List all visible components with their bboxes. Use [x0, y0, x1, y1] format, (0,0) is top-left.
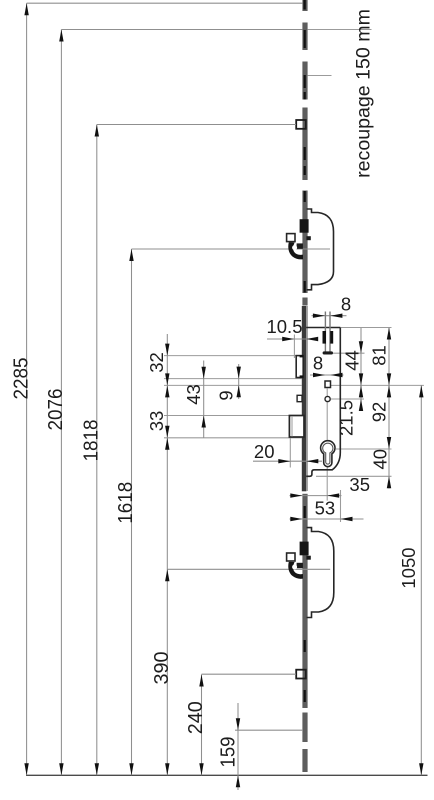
connector 1618 to upper keeper pivot — [132, 248, 331, 250]
arrow 159 bottom (outside below) — [236, 775, 240, 787]
arrow 240 top — [199, 675, 203, 687]
rail bar segment 5 — [302, 191, 307, 294]
arrows bowtie x167.3 y385.4 — [165, 373, 169, 397]
upper keeper nib on rail — [306, 236, 310, 240]
latch pin black flank right — [330, 331, 333, 344]
dim line 10.5 — [267, 338, 317, 340]
baseline arrow x131.5 — [129, 763, 133, 775]
baseline arrow x61.4 — [59, 763, 63, 775]
latch pin slot lines — [325, 312, 330, 352]
arrows dim 20 — [278, 459, 318, 463]
arrows bowtie x389 y385.4 — [387, 373, 391, 397]
baseline arrow x96.8 — [95, 763, 99, 775]
latch bolt — [296, 355, 303, 378]
ext line cylinder axis y449 — [336, 448, 392, 450]
svg-text:159: 159 — [218, 737, 240, 768]
vertical dim line 2076 x61.4 — [60, 30, 62, 776]
ext line small circle y399 — [331, 398, 364, 400]
fixing hole H2 on rail — [296, 670, 306, 679]
recoupage witness top (right of rail) — [308, 29, 372, 31]
svg-text:53: 53 — [315, 498, 336, 519]
upper hook pivot shade — [297, 243, 303, 248]
upper hook inner white notch — [292, 245, 297, 250]
svg-text:1050: 1050 — [398, 547, 419, 588]
rail bar segment 1 (top) — [302, 0, 307, 11]
arrows dim 10.5 — [282, 337, 318, 341]
upper hook head — [287, 234, 295, 242]
vertical dim line 81/92/40 x389 — [388, 328, 390, 489]
rail bar segment 6 (short above lock case) — [302, 298, 307, 306]
svg-text:20: 20 — [254, 441, 275, 462]
svg-text:recoupage 150 mm: recoupage 150 mm — [352, 9, 374, 178]
dim line 53 — [290, 518, 364, 520]
baseline datum line — [26, 774, 428, 776]
arrows dim 35 — [290, 493, 339, 497]
arrow 40 bottom — [387, 476, 391, 488]
ext line case right edge x340.5 below case — [340, 490, 342, 522]
arrow 92 bottom — [387, 437, 391, 449]
lock case top ext to right — [340, 327, 391, 329]
arrows bowtie x361 y385.4 — [359, 373, 363, 397]
vertical dim line 1050 x421.3 — [420, 385, 422, 775]
ext line latch bottom y378.6 — [164, 378, 302, 380]
baseline arrow x201.5 — [199, 763, 203, 775]
vertical dim line 1618 x131.5 — [131, 249, 133, 775]
handle follower square hole — [325, 381, 331, 388]
svg-text:10.5: 10.5 — [266, 316, 302, 337]
arrow 81 top — [387, 328, 391, 340]
vertical dim line 43 x203.7 — [203, 361, 205, 439]
vertical dim line 44/21.5 x361 — [360, 328, 362, 412]
svg-text:1818: 1818 — [80, 420, 102, 462]
lower hook claw — [288, 562, 303, 579]
svg-text:40: 40 — [370, 449, 391, 470]
deadbolt — [289, 416, 304, 438]
latch pin slot dark base — [323, 351, 333, 354]
rail bar segment 7 (below lock case, through lower keeper) — [302, 494, 307, 708]
svg-text:8: 8 — [341, 293, 351, 314]
arrow 159 top (outside above) — [236, 718, 240, 730]
arrow 44 top (outside above y353.2) — [359, 341, 363, 353]
arrows dim 8 bottom — [313, 373, 343, 377]
upper keeper body — [307, 209, 334, 290]
lock case right edge and bottom profile — [306, 328, 340, 477]
baseline arrow x167.3 — [165, 763, 169, 775]
arrow 32 top (outside above y355.6) — [165, 344, 169, 356]
lower hook head — [287, 553, 295, 561]
svg-text:2076: 2076 — [45, 389, 67, 431]
svg-text:2285: 2285 — [10, 358, 32, 400]
svg-text:32: 32 — [146, 352, 167, 373]
faceplate square hole — [297, 395, 302, 401]
arrow 2076 top — [59, 30, 63, 42]
latch pin black flank left — [323, 331, 327, 344]
lock case top edge — [306, 327, 340, 329]
ext line latch top y355.6 — [164, 355, 297, 357]
ext line pin slot bottom y353 — [332, 352, 365, 354]
svg-text:9: 9 — [216, 390, 237, 400]
ext line latch tip x294.4 — [293, 335, 295, 359]
small hole below follower — [325, 396, 330, 401]
arrow 2285 top — [24, 3, 28, 15]
svg-text:8: 8 — [313, 353, 323, 374]
fixing hole H1 on rail — [296, 120, 306, 129]
connector 240 to hole H2 — [202, 673, 297, 675]
baseline arrow x421.3 — [419, 763, 423, 775]
euro cylinder inner profile — [323, 443, 333, 464]
rail bar segment 9 — [302, 713, 307, 743]
ext line deadbolt tip x290.3 — [289, 438, 291, 468]
ext line deadbolt top y415.5 — [164, 415, 290, 417]
svg-text:1618: 1618 — [115, 482, 137, 524]
ext line follower axis y385.4 left — [164, 384, 302, 386]
arrow 1050 top — [419, 385, 423, 397]
rail bar segment 3 — [302, 62, 307, 100]
vertical dim line 32/33/390 x167.3 — [166, 334, 168, 775]
arrow 21.5 bottom (outside below y399) — [359, 399, 363, 411]
lower hook pivot blob on rail — [300, 542, 309, 556]
arrows bowtie x167.3 y437.8 — [165, 426, 169, 450]
ext line case step y476.3 — [316, 475, 392, 477]
arrow 1818 top — [95, 125, 99, 137]
arrows dim 9 — [237, 367, 241, 398]
vertical dim line 240 x201.5 — [201, 675, 203, 776]
dim line 8 top — [312, 315, 347, 317]
vertical dim line 2285 x26.6 — [26, 3, 28, 775]
dim line 35 — [290, 495, 342, 497]
lower hook inner white notch — [292, 565, 297, 570]
connector 2076 (left of rail) — [61, 29, 302, 31]
lock faceplate band — [302, 306, 308, 491]
rail bar segment 4 — [302, 108, 307, 181]
svg-text:35: 35 — [349, 474, 370, 495]
rail bar segment 10 (bottom) — [302, 749, 307, 772]
upper hook claw — [288, 242, 303, 259]
lower keeper body — [307, 528, 334, 618]
baseline arrow x26.6 — [24, 763, 28, 775]
arrows dim 8 top — [313, 314, 343, 318]
svg-text:44: 44 — [342, 350, 363, 371]
svg-text:21.5: 21.5 — [336, 400, 357, 436]
svg-text:33: 33 — [146, 411, 167, 432]
ext line cylinder axis vertical x327.2 — [326, 389, 328, 501]
connector 1818 to hole H1 — [97, 124, 296, 126]
ext line deadbolt bottom y437.8 — [164, 437, 302, 439]
connector 2285 — [27, 2, 303, 4]
arrows dim 43 — [202, 367, 206, 428]
arrow 390 top — [165, 569, 169, 581]
svg-text:81: 81 — [369, 345, 390, 366]
connector 159 — [235, 729, 303, 731]
arrows dim 53 — [290, 517, 352, 521]
connector 390 to lower keeper pivot — [167, 568, 330, 570]
euro cylinder outer profile — [321, 441, 335, 467]
lower keeper nib on rail — [306, 556, 310, 560]
svg-text:43: 43 — [183, 384, 204, 405]
upper hook pivot blob on rail — [300, 219, 309, 233]
dim line 8 bottom — [310, 374, 344, 376]
svg-text:390: 390 — [151, 652, 173, 685]
rail bar segment 2 — [302, 23, 307, 51]
recoupage witness bottom — [308, 75, 332, 77]
lower hook pivot shade — [297, 563, 303, 568]
vertical dim line 9 x238.7 — [238, 364, 240, 399]
svg-text:92: 92 — [369, 402, 390, 423]
vertical dim line 1818 x96.8 — [96, 125, 98, 776]
vertical dim line 159 x238 — [237, 703, 239, 790]
svg-text:240: 240 — [185, 701, 207, 734]
ext line follower axis y385.4 right — [331, 384, 424, 386]
dim line 20 — [253, 460, 322, 462]
arrow 1618 top — [129, 249, 133, 261]
